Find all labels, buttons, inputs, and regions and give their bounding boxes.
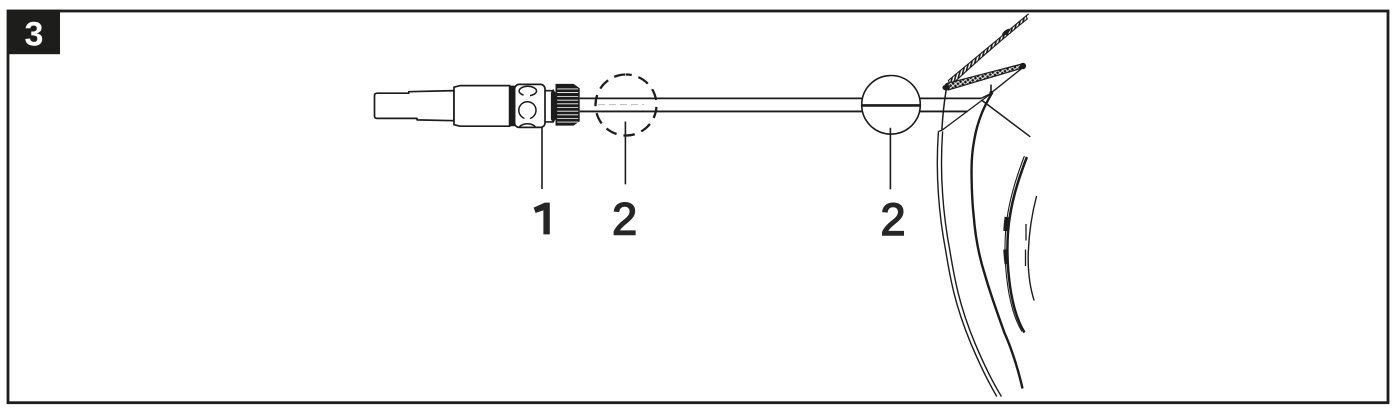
opening rim ticks [1025,224,1028,266]
leader line 2 [624,122,626,185]
leader line 2 ball [889,128,891,190]
svg-text:2: 2 [880,194,905,245]
rim support line [990,85,992,93]
step badge [7,10,60,54]
knurled nut [556,84,580,126]
ball chord [862,104,920,107]
hub joint dot [989,91,993,95]
svg-text:3: 3 [25,16,44,54]
wall fold line [942,93,992,130]
rim edge to tip [991,67,1023,93]
opening rim dark segments [1005,217,1006,264]
lower rim blob [1020,63,1026,69]
rim left tip blob [942,85,950,91]
probe body [454,86,510,127]
wall seam upper [981,93,992,98]
vent section [515,84,545,127]
vent hole middle [519,102,536,119]
upper rim blob mid [1001,28,1011,37]
knurl ribs [557,89,578,122]
tube hidden centerline [598,104,644,106]
probe tube top edge [580,97,981,99]
nut flange [551,89,556,123]
coupler neck [545,91,553,122]
shell corner jog [938,130,942,131]
upper rim tip lines [1026,14,1028,16]
probe tube bottom edge [580,110,968,112]
shell outer edge inner line [941,131,1001,396]
appliance lower rim blade [948,64,1024,90]
appliance upper rim blade [949,16,1028,86]
svg-text:2: 2 [612,194,637,245]
opening rim arc inner [1005,156,1024,332]
leader line 1 [541,128,543,189]
opening inner arc [1028,196,1036,301]
label 1 [534,203,550,235]
body end ring [510,86,515,127]
vent hole top [519,86,536,95]
vent hole bottom [519,124,536,133]
shell outer edge outer line [937,131,997,396]
detail circle dashed [596,75,657,136]
upper rim blob left [945,83,953,89]
opening rim arc outer [1007,157,1027,333]
vent hole notches [524,94,531,96]
shell top edge [942,89,946,130]
probe cable boot [375,91,455,121]
wall seam diagonal [981,100,1030,137]
ball [862,76,921,135]
inner wall arc heavy [972,93,1023,388]
